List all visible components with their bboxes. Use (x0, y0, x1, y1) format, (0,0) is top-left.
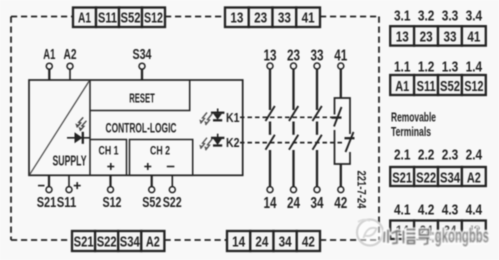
supply LED diode D1 (67, 132, 90, 144)
svg-text:S21: S21 (392, 170, 412, 187)
channel box CH1 (90, 140, 127, 176)
svg-text:33: 33 (278, 10, 291, 27)
svg-text:1.3: 1.3 (442, 59, 459, 76)
svg-text:34: 34 (311, 195, 324, 212)
terminal strip top-right 13 23 33 41 (225, 8, 320, 28)
polarity plus at S11 (74, 182, 81, 189)
svg-text:S11: S11 (57, 194, 77, 211)
svg-text:A2: A2 (64, 47, 77, 63)
terminal S52 (142, 175, 161, 211)
right panel terminal row 13 23 33 41 (390, 26, 486, 45)
svg-text:S12: S12 (144, 10, 163, 27)
watermark text 微信号:gkongbbs (384, 225, 489, 247)
svg-text:42: 42 (334, 195, 347, 212)
dashed border: top segment middle (165, 16, 225, 18)
dashed border: top segment right (320, 16, 379, 18)
terminal strip bottom-right 14 24 34 42 (227, 231, 320, 251)
svg-text:13: 13 (264, 47, 277, 64)
svg-text:33: 33 (311, 47, 324, 64)
NO contact blade (K1) (289, 106, 298, 121)
svg-text:2.1: 2.1 (394, 147, 411, 164)
NO contact blade (K2) (313, 135, 322, 150)
svg-text:CONTROL-LOGIC: CONTROL-LOGIC (106, 120, 177, 135)
svg-text:Terminals: Terminals (391, 125, 431, 139)
svg-text:S52: S52 (142, 194, 161, 211)
right panel row labels 3.x (394, 8, 483, 25)
supply diagonal (30, 81, 90, 175)
CH2 plus sign (144, 163, 151, 170)
NO contact blade (K1) (266, 106, 275, 121)
right panel row labels 2.x (394, 147, 483, 164)
relay K1 LED flash arrows (201, 113, 213, 126)
svg-text:3.1: 3.1 (394, 8, 411, 25)
right panel terminal row S21 S22 S34 A2 (390, 167, 486, 187)
svg-text:2.4: 2.4 (466, 147, 483, 164)
svg-text:33: 33 (444, 28, 457, 45)
mechanical link dashed line K1 (240, 116, 335, 118)
svg-text:4.4: 4.4 (466, 202, 483, 219)
svg-text:S21: S21 (37, 194, 57, 211)
terminal strip bottom-left S21 S22 S34 A2 (72, 231, 164, 251)
NC contact 1 blade (334, 107, 342, 127)
svg-text:41: 41 (334, 47, 347, 64)
dashed border: bottom segment right (320, 239, 379, 241)
svg-text:RESET: RESET (129, 91, 155, 106)
main device box (29, 80, 243, 175)
contact column 33-34 (311, 47, 324, 212)
terminal S22 (163, 175, 182, 211)
NO contact blade (K2) (266, 135, 275, 150)
svg-text:14: 14 (232, 234, 246, 251)
svg-text:221-7-24: 221-7-24 (355, 171, 367, 209)
svg-text:3.3: 3.3 (442, 8, 459, 25)
supply LED flash arrows (77, 117, 87, 130)
NO contact blade (K1) (313, 106, 322, 121)
svg-text:K2: K2 (226, 136, 240, 150)
svg-text:2.3: 2.3 (442, 147, 459, 164)
CH2 minus sign (167, 166, 175, 168)
relay K1 LED diode (211, 109, 224, 121)
terminal S34 (133, 47, 152, 80)
svg-text:S12: S12 (103, 194, 122, 211)
terminal A2 (64, 47, 77, 80)
svg-text:SUPPLY: SUPPLY (53, 154, 87, 170)
svg-text:A1: A1 (395, 78, 409, 95)
right panel terminal row A1 S11 S52 S12 (390, 75, 486, 95)
svg-text:CH 2: CH 2 (150, 144, 170, 158)
svg-text:S52: S52 (121, 10, 141, 27)
svg-text:23: 23 (420, 28, 433, 45)
svg-text:3.2: 3.2 (418, 8, 435, 25)
svg-text:14: 14 (264, 195, 277, 212)
svg-text:S52: S52 (440, 78, 460, 95)
svg-text:S22: S22 (416, 170, 436, 187)
dashed border: bottom segment left (11, 239, 72, 241)
svg-text:A1: A1 (78, 10, 91, 27)
contact column 23-24 (287, 47, 300, 212)
svg-text:41: 41 (302, 10, 315, 27)
svg-text:24: 24 (287, 195, 300, 212)
svg-text:23: 23 (254, 10, 267, 27)
RESET box (90, 80, 190, 111)
svg-text:4.1: 4.1 (394, 202, 411, 219)
svg-text:S22: S22 (97, 234, 117, 251)
svg-text:CH 1: CH 1 (99, 144, 119, 158)
terminal A1 (43, 47, 55, 80)
svg-text:42: 42 (302, 234, 315, 251)
svg-text:4.3: 4.3 (442, 202, 459, 219)
right panel row labels 4.x (394, 202, 483, 219)
svg-text:S11: S11 (98, 10, 117, 27)
channel box CH2 (130, 140, 193, 176)
auxiliary contact column 41-42 (332, 47, 355, 212)
relay K2 LED flash arrows (201, 138, 213, 151)
dashed border: left side (10, 17, 12, 241)
svg-text:K1: K1 (226, 111, 240, 125)
watermark stamp circle (357, 220, 383, 246)
svg-text:23: 23 (287, 47, 300, 64)
terminal strip top-left A1 S11 S52 S12 (73, 8, 165, 28)
svg-text:S11: S11 (417, 78, 436, 95)
svg-text:13: 13 (396, 28, 409, 45)
supply divider (89, 80, 91, 175)
svg-text:3.4: 3.4 (466, 8, 483, 25)
svg-text:34: 34 (279, 234, 293, 251)
dashed removable-terminal border: top segment left (11, 16, 73, 18)
CH1 plus sign (107, 163, 114, 170)
terminal S12 (103, 175, 122, 211)
dashed border: right side (378, 17, 380, 241)
svg-text:24: 24 (255, 234, 269, 251)
svg-text:S21: S21 (74, 234, 94, 251)
svg-text:4.2: 4.2 (418, 202, 435, 219)
terminal S11 (57, 175, 77, 211)
svg-text:41: 41 (467, 28, 480, 45)
svg-text:S34: S34 (133, 47, 152, 63)
svg-text::gkongbbs: :gkongbbs (431, 225, 489, 247)
NC contact 2 blade (346, 132, 354, 152)
svg-text:S12: S12 (464, 78, 483, 95)
svg-text:1.4: 1.4 (466, 59, 483, 76)
right panel row labels 1.x (394, 59, 483, 76)
dashed border: bottom segment middle (165, 239, 228, 241)
mechanical link dashed line K2 (240, 142, 345, 144)
terminal S21 (37, 175, 57, 211)
NC contact loop box (335, 98, 351, 164)
svg-text:S22: S22 (163, 194, 182, 211)
NC contact 1 bar (332, 116, 342, 118)
relay K2 LED diode (211, 134, 224, 146)
polarity minus at S21 (38, 185, 45, 187)
NO contact blade (K2) (289, 135, 298, 150)
svg-text:S34: S34 (440, 170, 460, 187)
right panel terminal row 14 24 34 42 (390, 221, 486, 240)
svg-text:A2: A2 (467, 170, 481, 187)
svg-text:2.2: 2.2 (418, 147, 435, 164)
svg-text:A1: A1 (43, 47, 55, 63)
svg-text:13: 13 (230, 10, 243, 27)
svg-text:1.1: 1.1 (394, 59, 411, 76)
contact column 13-14 (264, 47, 277, 212)
svg-text:Removable: Removable (391, 110, 436, 124)
svg-text:1.2: 1.2 (418, 59, 435, 76)
NC contact 2 bar (345, 137, 355, 139)
svg-text:A2: A2 (146, 234, 160, 251)
svg-text:S34: S34 (120, 234, 140, 251)
